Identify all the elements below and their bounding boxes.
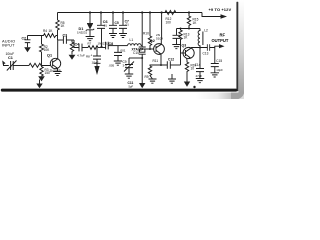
ground (C7b) (114, 61, 122, 65)
wire collector node to C3 (58, 39, 64, 41)
svg-text:R10: R10 (143, 32, 149, 36)
Q2 emitter wire (161, 54, 167, 65)
input terminal arrow (2, 60, 5, 64)
wire crystal to bottom (141, 54, 143, 84)
supply drop wire x57 (57, 13, 59, 21)
svg-text:.01: .01 (125, 23, 129, 27)
capacitor C7b drop (117, 46, 119, 53)
Q2 collector wire (160, 39, 162, 44)
svg-text:10uF: 10uF (92, 60, 99, 64)
wire crystal node to Q2 base (142, 48, 154, 50)
wire cap to ground (176, 38, 178, 44)
ground (R11) (149, 79, 157, 83)
resistor R13 (179, 29, 182, 66)
svg-text:100: 100 (166, 20, 172, 24)
resistor R11 (148, 66, 152, 79)
wire stub ground (171, 74, 173, 79)
svg-text:R11: R11 (153, 59, 159, 63)
svg-text:C15: C15 (216, 59, 222, 63)
node dot bottom (193, 86, 195, 88)
svg-text:C10: C10 (133, 51, 139, 55)
node dot R15 (188, 11, 190, 13)
Q3 base wire (181, 52, 186, 54)
svg-text:R4: R4 (43, 29, 47, 33)
trimmer C9 drop (128, 58, 130, 65)
ground (D1) (86, 37, 95, 41)
svg-text:C14: C14 (195, 63, 201, 67)
wire to trimmer C9 (129, 57, 142, 59)
ground (C2, solid) (24, 47, 31, 52)
page corner shadow (231, 93, 244, 100)
svg-text:.005: .005 (109, 64, 115, 68)
node dot C7 (122, 11, 124, 13)
bypass cap C6 drop (100, 13, 102, 26)
svg-text:4.7uF: 4.7uF (77, 53, 85, 57)
svg-text:L1: L1 (130, 38, 134, 42)
wire C15 ground (214, 67, 216, 73)
capacitor C3 (63, 36, 66, 44)
capacitor C6 (97, 25, 105, 28)
svg-text:Q1: Q1 (47, 54, 52, 58)
capacitor C15 drop (214, 48, 216, 64)
node dot trimmer branch (141, 57, 143, 59)
svg-text:Q3: Q3 (182, 44, 187, 48)
Q3 emitter resistor R14 (185, 58, 188, 81)
svg-text:1N5231: 1N5231 (98, 42, 109, 46)
ground (C15) (211, 73, 219, 77)
wire C12 to Q3 base (170, 64, 180, 66)
node dot collector rail (161, 11, 163, 13)
wire R8 to node (98, 47, 106, 49)
capacitor C15 (211, 64, 219, 67)
trimmer capacitor C9 (125, 65, 133, 68)
capacitor C5 (109, 25, 117, 28)
wire C4 to R8 (82, 47, 88, 49)
inductor L1 (128, 44, 142, 46)
ground (C5e, bar + arrow) (94, 63, 101, 66)
wire C5 to ground (112, 28, 114, 33)
ground (C9) (125, 74, 133, 78)
svg-text:C13: C13 (203, 52, 209, 56)
node dot C6 (100, 11, 102, 13)
svg-text:5pF: 5pF (129, 85, 134, 89)
series cap C8 (106, 42, 109, 50)
svg-text:L2: L2 (204, 29, 208, 33)
wire C7b to ground (117, 56, 119, 62)
input wire (4, 64, 9, 66)
ground (C14) (196, 79, 204, 83)
capacitor C4 (79, 44, 82, 52)
wire C2 to ground (27, 43, 29, 48)
page bottom rule line (1, 89, 237, 92)
resistor R2 (40, 36, 51, 66)
svg-text:OUTPUT: OUTPUT (212, 38, 229, 43)
svg-text:47pF: 47pF (196, 74, 203, 78)
capacitor C7b (114, 52, 122, 55)
node dot crystal rail (141, 11, 143, 13)
node dot R13 top (180, 28, 182, 30)
resistor R15 (187, 13, 190, 29)
resistor R10 drop (149, 13, 151, 37)
svg-text:C11: C11 (128, 81, 134, 85)
wire node to L1 (118, 45, 128, 47)
page shadow bottom edge (196, 93, 244, 99)
svg-text:.001: .001 (120, 48, 126, 52)
svg-text:150: 150 (45, 71, 51, 75)
page shadow right edge (238, 0, 244, 99)
ground arrow (crystal, solid) (139, 83, 145, 88)
wire C7 to ground (122, 28, 124, 33)
ground (bypass cap) (172, 45, 180, 49)
ground (C12 area) (168, 79, 176, 83)
wire emitter to R11 (150, 65, 161, 66)
Q1 emitter wire (57, 68, 59, 71)
svg-text:5109: 5109 (156, 36, 163, 40)
svg-text:R7: R7 (88, 41, 92, 45)
resistor R1 (series) (29, 63, 41, 67)
wire node to C4 (74, 40, 79, 48)
inductor L2 (198, 29, 200, 48)
series capacitor C13 (207, 44, 209, 51)
svg-text:+9 TO +12V: +9 TO +12V (209, 7, 232, 12)
ground (C5) (109, 34, 117, 38)
capacitor C2 (25, 40, 31, 43)
svg-text:C5: C5 (115, 21, 119, 25)
ground (R6, solid) (69, 55, 76, 60)
node dot Q2 base (141, 48, 143, 50)
wire C3 to node (66, 39, 74, 41)
node dot R10 base (149, 48, 151, 50)
page edge vertical line (236, 2, 238, 91)
RF output arrow wire (215, 46, 220, 47)
svg-text:1N5231: 1N5231 (77, 31, 88, 35)
capacitor C7 (119, 25, 127, 28)
svg-text:C1: C1 (8, 56, 13, 60)
svg-text:1K: 1K (49, 29, 54, 33)
Q3 collector wire to output (191, 47, 215, 50)
svg-text:R8: R8 (86, 55, 90, 59)
resistor R5 (56, 20, 60, 40)
wire C14 ground (199, 72, 201, 79)
supply rail wire (58, 12, 203, 14)
diode D1 (87, 23, 93, 25)
ground arrow (Q3 emitter, solid) (184, 82, 190, 87)
rail drop to collector (161, 13, 163, 40)
supply arrowhead (221, 14, 228, 19)
node dot emitter (160, 64, 162, 66)
capacitor C12 (167, 61, 170, 69)
RF output arrowhead (219, 44, 225, 48)
node dot L2 output (199, 47, 201, 49)
capacitor C5e (electrolytic) (93, 56, 101, 59)
node dot C6 junction (101, 46, 103, 48)
wire down to C5e (96, 48, 98, 57)
wire C6 down to audio node (101, 28, 103, 46)
svg-text:C12: C12 (168, 57, 174, 61)
resistor R8 (series) (88, 46, 98, 50)
resistor R6 (70, 40, 73, 55)
capacitor C14 drop (199, 48, 201, 69)
svg-text:INPUT: INPUT (2, 42, 15, 47)
crystal drop wire (141, 13, 143, 48)
svg-text:R9: R9 (145, 75, 149, 79)
resistor R10 (148, 36, 151, 49)
transistor Q2 (154, 44, 165, 55)
diode D1 drop wire (89, 13, 91, 24)
node dot D1 (89, 11, 91, 13)
bypass cap C5 drop (112, 13, 114, 26)
supply corner wire to arrow (202, 13, 221, 17)
node dot C5 (112, 11, 114, 13)
wire C5e to ground (96, 59, 98, 63)
transistor Q3 (183, 47, 194, 58)
bias wire node (177, 28, 201, 30)
transistor Q1 (50, 58, 60, 68)
wire C9 to ground (128, 68, 130, 74)
svg-text:2N3565: 2N3565 (50, 69, 61, 73)
resistor R4 (horizontal) (42, 34, 58, 38)
ground arrow left (R3 path, solid) (39, 80, 41, 84)
ground (C7) (119, 34, 127, 38)
bypass cap C7 drop (122, 13, 124, 26)
svg-text:+: + (91, 53, 93, 57)
svg-text:Q2: Q2 (150, 39, 155, 43)
wire C1 to R1 (13, 65, 29, 67)
Q1 collector wire (57, 40, 59, 59)
resistor R12 on rail (165, 11, 176, 15)
svg-text:10pF: 10pF (216, 68, 223, 72)
ground (Q1 emitter) (53, 72, 61, 76)
crystal XTAL1 (139, 47, 146, 54)
wire L1 to crystal line (141, 45, 142, 47)
wire C8 to C7b node (108, 45, 118, 47)
capacitor C13 bypass (176, 29, 178, 36)
wire R1 to base node (40, 65, 42, 67)
node dot R10 (149, 11, 151, 13)
capacitor C14 (196, 69, 204, 72)
svg-text:3-9: 3-9 (123, 63, 128, 67)
wire node to C2 (28, 36, 42, 40)
resistor R3 base-ground (40, 66, 43, 77)
capacitor C1 (11, 61, 14, 70)
svg-text:10K: 10K (44, 48, 51, 52)
